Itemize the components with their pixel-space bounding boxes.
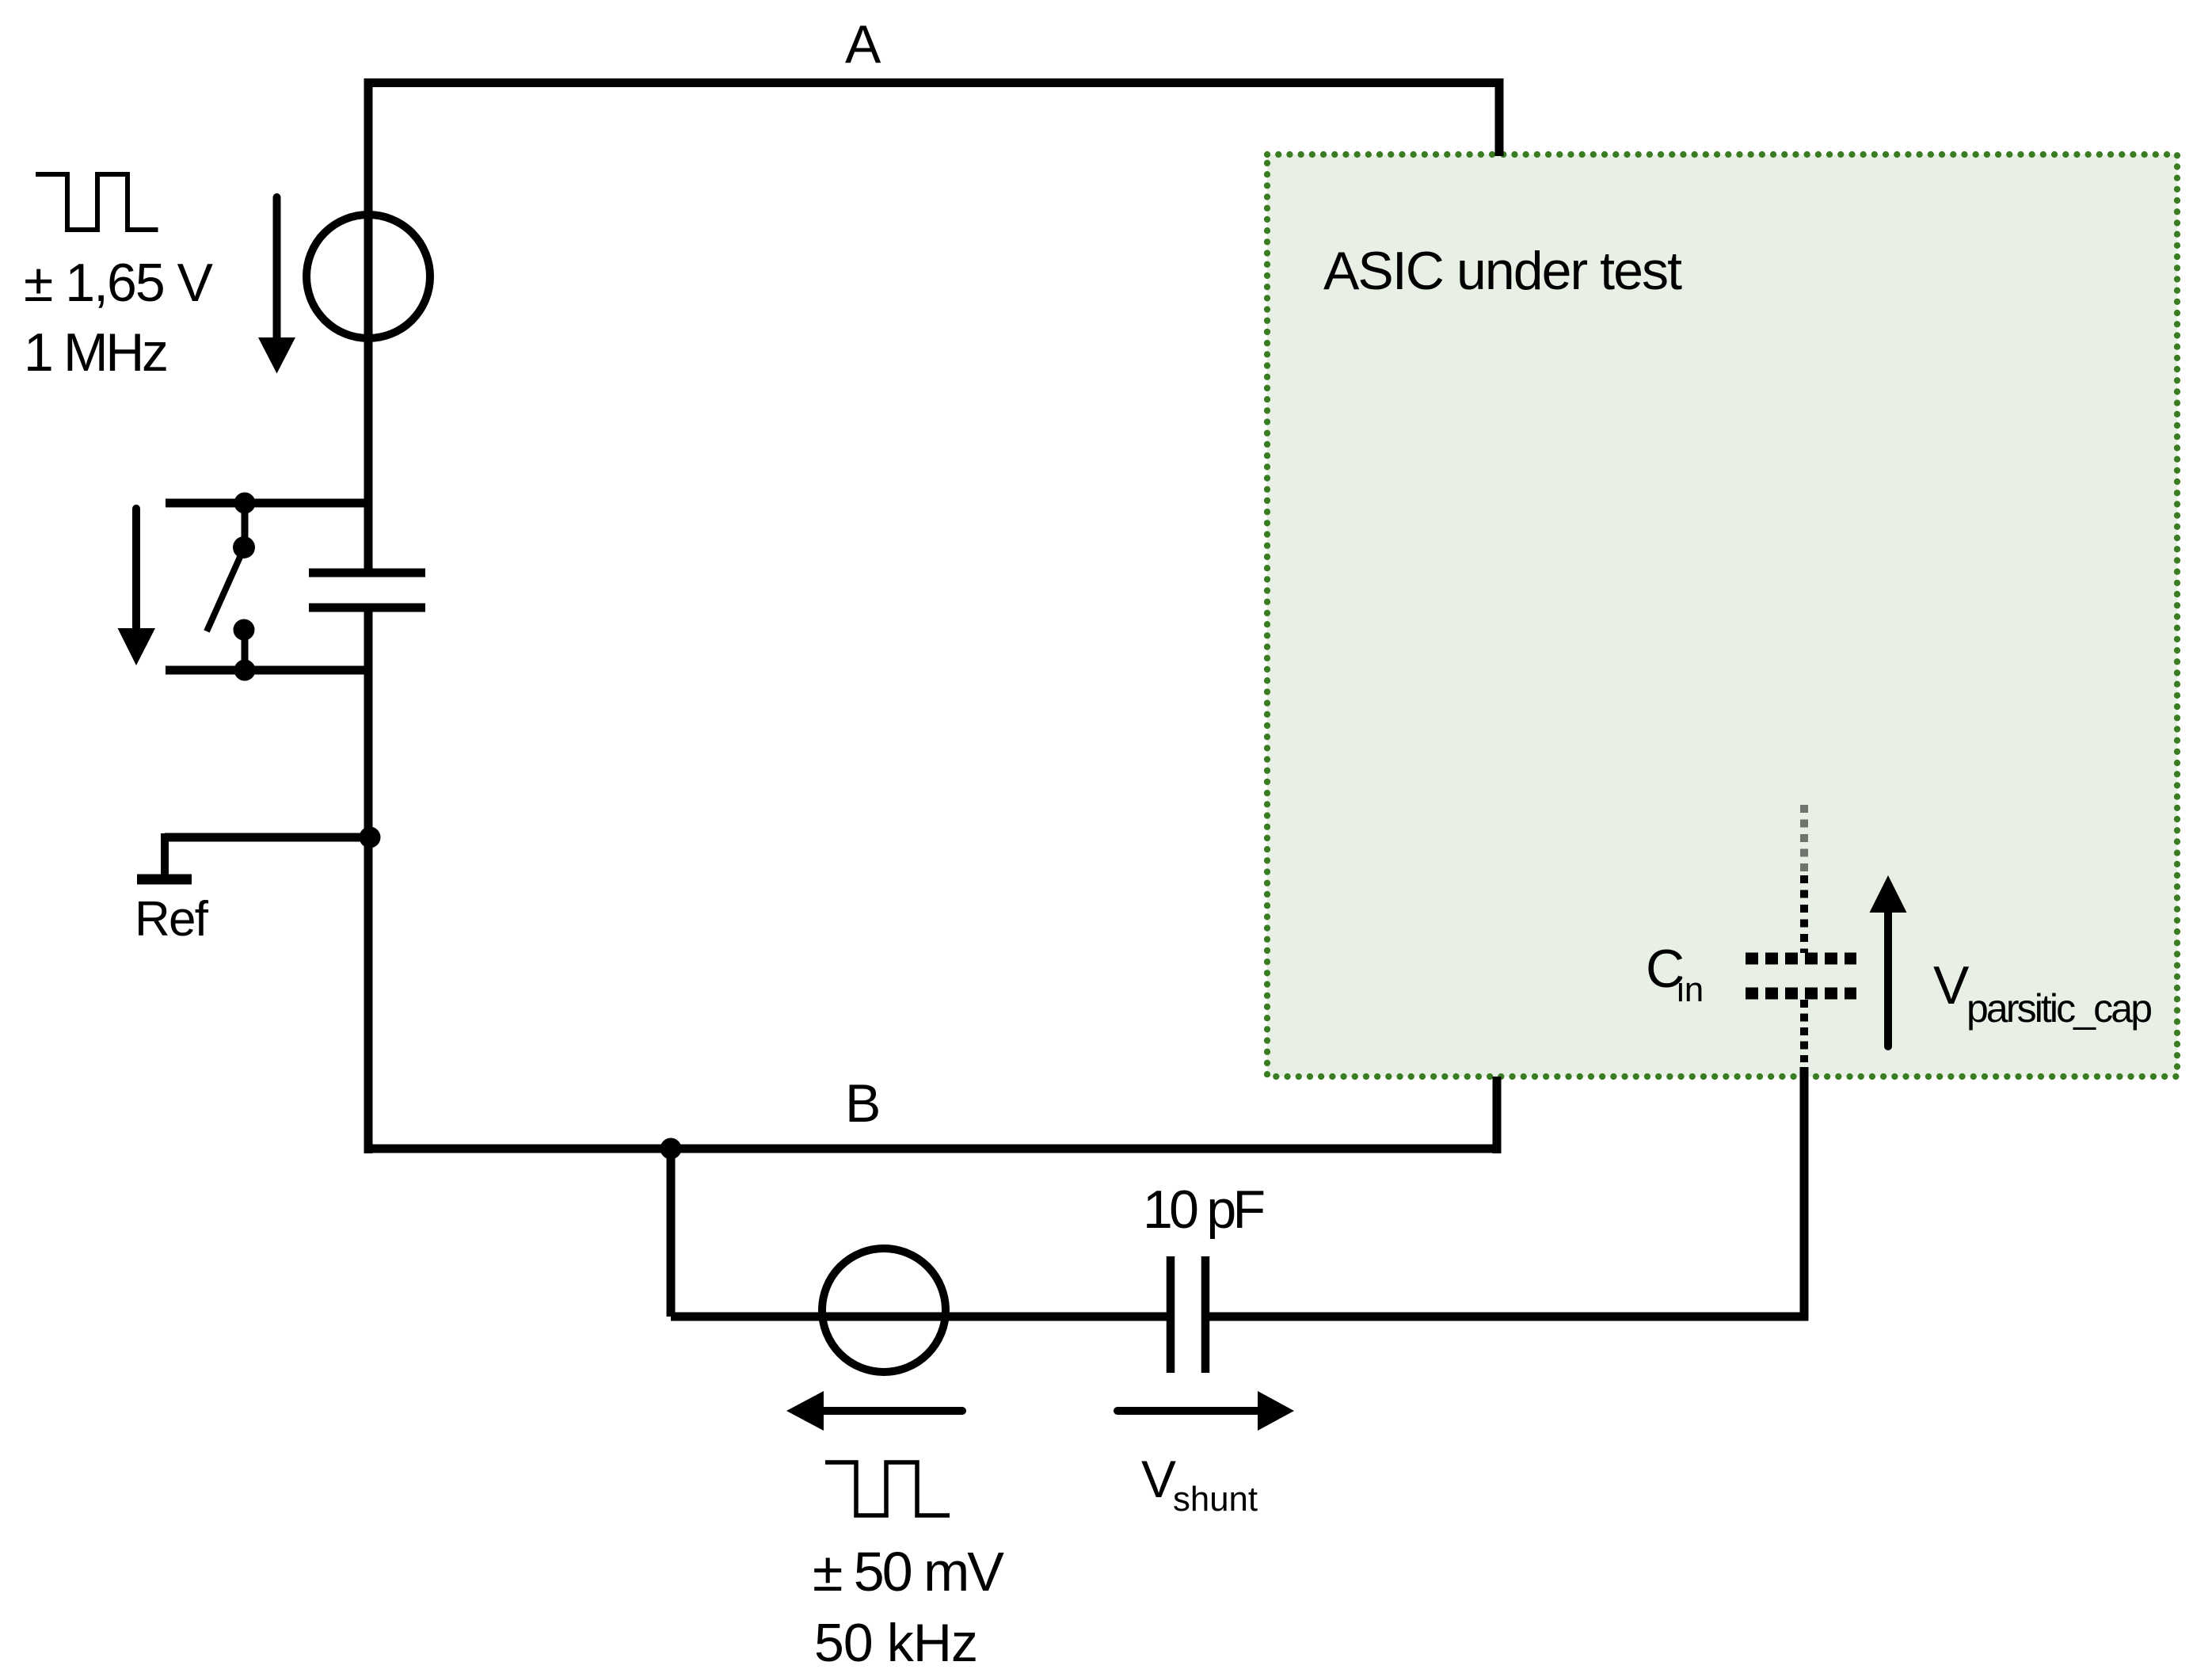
arrow up Vparsitic_cap [1884, 913, 1892, 1046]
svg-text:A: A [845, 14, 881, 74]
capacitor C1 plates [309, 569, 425, 577]
svg-text:B: B [845, 1073, 881, 1134]
switch bottom wire [166, 666, 368, 675]
svg-text:shunt: shunt [1173, 1480, 1258, 1519]
arrow right Vshunt [1117, 1407, 1258, 1415]
source V1 circle [306, 215, 430, 338]
capacitor 10 pF plates [1167, 1256, 1175, 1373]
wire shunt branch horizontal left [671, 1313, 1167, 1321]
wire left vertical lower [364, 612, 373, 1153]
capacitor Cin bottom plate dashed [1746, 988, 1856, 1000]
wire A right vertical into box [1495, 78, 1504, 156]
arrow left below V2 [824, 1407, 962, 1415]
switch top wire [166, 499, 368, 508]
switch node dots [234, 493, 256, 514]
svg-text:1 MHz: 1 MHz [24, 322, 169, 383]
svg-text:10 pF: 10 pF [1143, 1180, 1266, 1240]
arrow down beside V1 [273, 197, 281, 339]
square wave symbol V1 [36, 174, 158, 230]
wire left vertical upper [364, 78, 373, 569]
wire B horizontal [368, 1145, 1497, 1153]
wire B right vertical to box [1493, 1077, 1502, 1153]
Ref wire horizontal [165, 833, 370, 842]
wire shunt branch horizontal right [1209, 1313, 1808, 1321]
Ref wire vertical [161, 833, 169, 875]
capacitor Cin dashed lead gray [1800, 805, 1808, 875]
capacitor Cin dashed lead upper [1800, 875, 1808, 953]
wire shunt branch vertical [667, 1145, 676, 1317]
svg-text:V: V [1141, 1450, 1176, 1508]
svg-text:V: V [1933, 955, 1970, 1016]
svg-text:in: in [1677, 970, 1704, 1009]
wire A top horizontal [364, 78, 1503, 87]
ground bar Ref [137, 875, 192, 885]
svg-text:parsitic_cap: parsitic_cap [1966, 986, 2153, 1031]
wire Cin vertical solid [1800, 1067, 1809, 1321]
svg-text:± 50 mV: ± 50 mV [813, 1541, 1004, 1603]
svg-text:50 kHz: 50 kHz [814, 1613, 978, 1673]
ASIC under test box [1267, 154, 2177, 1077]
node junction B [661, 1138, 682, 1160]
switch lever [207, 548, 244, 631]
svg-text:± 1,65 V: ± 1,65 V [24, 253, 214, 313]
arrow down beside switch [132, 509, 140, 630]
switch stub top [242, 503, 249, 547]
capacitor Cin dashed lead lower [1800, 1000, 1808, 1062]
switch stub bottom [242, 630, 249, 670]
node junction Ref [360, 827, 381, 848]
svg-text:ASIC under test: ASIC under test [1323, 241, 1682, 301]
square wave symbol V2 [825, 1462, 950, 1515]
capacitor Cin top plate dashed [1746, 953, 1856, 965]
source V2 circle [822, 1248, 946, 1372]
svg-text:Ref: Ref [135, 892, 209, 947]
